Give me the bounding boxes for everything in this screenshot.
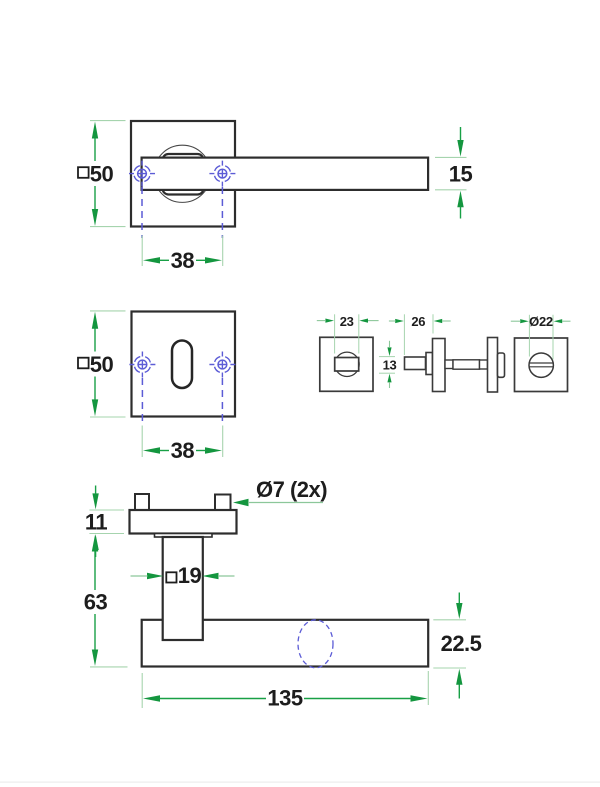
svg-text:63: 63 bbox=[84, 590, 108, 615]
svg-text:Ø7 (2x): Ø7 (2x) bbox=[256, 477, 327, 502]
coin slot circle bbox=[529, 353, 553, 377]
rosette disc left (side) bbox=[433, 339, 446, 392]
dimension 22.5 bbox=[433, 593, 481, 699]
dimension 38 middle bbox=[142, 426, 223, 464]
spindle collar left bbox=[426, 353, 433, 375]
leader diam7 (2x) bbox=[233, 477, 327, 506]
thumbturn circle bbox=[335, 352, 359, 376]
faint page rule bbox=[0, 782, 600, 783]
screw post right bbox=[215, 495, 231, 511]
neck flange bbox=[155, 534, 213, 538]
screw post left bbox=[135, 494, 149, 510]
svg-text:Ø22: Ø22 bbox=[529, 314, 553, 329]
dimension square50 top bbox=[78, 121, 126, 227]
lever bar bbox=[142, 158, 429, 190]
svg-text:19: 19 bbox=[178, 563, 202, 588]
dimension 13 bbox=[379, 341, 396, 388]
dimension 63 bbox=[84, 535, 128, 667]
spindle stem bbox=[405, 357, 426, 370]
dimension diam22 bbox=[511, 314, 571, 360]
svg-text:23: 23 bbox=[340, 314, 354, 329]
svg-text:11: 11 bbox=[85, 509, 108, 534]
dashed centerlines down bbox=[141, 378, 143, 424]
wc release square front bbox=[515, 338, 568, 392]
rosette plate side bbox=[130, 510, 237, 534]
dimension 26 bbox=[389, 314, 451, 355]
dashed centerlines down bbox=[141, 187, 143, 238]
collar rounded bbox=[163, 154, 204, 195]
svg-text:15: 15 bbox=[449, 162, 473, 187]
neck column bbox=[163, 537, 203, 640]
key rosette square bbox=[132, 312, 236, 417]
nub left bbox=[445, 360, 453, 369]
keyhole slot bbox=[172, 341, 192, 389]
dimension 23 bbox=[317, 314, 379, 354]
center mark right (top view) bbox=[209, 161, 235, 187]
dimension 15 lever height bbox=[435, 127, 472, 219]
svg-text:38: 38 bbox=[171, 248, 195, 273]
dimension square19 bbox=[131, 563, 235, 588]
dimension square50 middle bbox=[78, 311, 126, 417]
hidden grip ellipse bbox=[298, 620, 333, 668]
thumbturn knob bbox=[335, 358, 359, 372]
svg-text:50: 50 bbox=[90, 162, 114, 187]
center mark left bbox=[129, 352, 155, 378]
lever side view bbox=[142, 620, 429, 667]
svg-text:50: 50 bbox=[90, 352, 114, 377]
svg-text:135: 135 bbox=[267, 686, 302, 711]
center mark right bbox=[209, 352, 235, 378]
svg-text:22.5: 22.5 bbox=[441, 631, 482, 656]
dimension 38 top bbox=[142, 236, 223, 273]
rosette disc right (side) bbox=[488, 338, 498, 393]
rosette square front bbox=[131, 121, 235, 227]
spindle bar bbox=[453, 360, 480, 369]
coin slot lines bbox=[530, 362, 553, 364]
collar right bbox=[498, 353, 505, 377]
nub right bbox=[480, 360, 488, 369]
svg-text:26: 26 bbox=[411, 314, 425, 329]
center mark left (top view) bbox=[129, 161, 155, 187]
wc square front bbox=[320, 337, 373, 391]
svg-text:13: 13 bbox=[383, 357, 397, 372]
boss circle (thin) bbox=[154, 145, 211, 202]
svg-text:38: 38 bbox=[171, 438, 195, 463]
dimension 11 bbox=[85, 486, 124, 558]
dimension 135 bbox=[142, 671, 428, 711]
